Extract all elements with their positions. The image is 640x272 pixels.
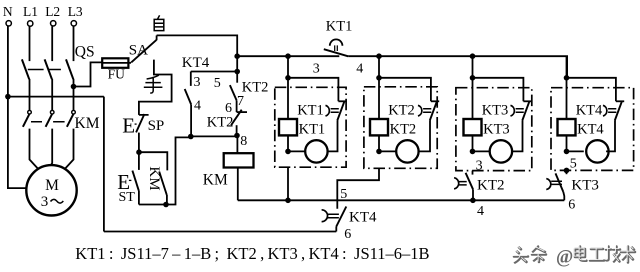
wire N vertical — [8, 26, 27, 188]
coil KT4 body — [558, 119, 576, 135]
wire node 8 to KM coil — [236, 136, 238, 154]
wire L2 middle — [51, 79, 53, 111]
contact KT4 off-delay arc — [603, 105, 607, 116]
coil KT2 body — [370, 119, 388, 135]
wire top bus left segment node 3 — [237, 55, 339, 57]
junction rail block 3 — [470, 75, 476, 81]
svg-text:3: 3 — [41, 194, 49, 210]
svg-text:KT3: KT3 — [482, 103, 509, 119]
junction bus to SA — [234, 53, 240, 59]
contactor KM linkage dashes — [31, 121, 65, 123]
contact KT4 off-delay lines — [608, 109, 616, 113]
wire rail to contact block 2 — [379, 78, 431, 102]
junction L3 fuse tap — [71, 84, 77, 90]
wire KT2 bottom to bus — [472, 189, 474, 200]
wire block2 return node 5 — [337, 168, 379, 209]
svg-text:KT1: KT1 — [299, 122, 326, 138]
enclosure block KT4 dash-dot border — [551, 88, 634, 171]
wire block1 return to bottom bus — [287, 167, 289, 200]
button ST top lead — [138, 152, 140, 170]
wire to KM aux contact — [139, 152, 167, 170]
button SP top lead and NC bar — [139, 106, 149, 115]
svg-text:3: 3 — [194, 75, 201, 90]
wire bus drop block 1 — [287, 56, 289, 78]
wire lamp to contact KT1 — [328, 121, 338, 152]
wire bus drop block 4 — [566, 56, 568, 78]
svg-text:7: 7 — [237, 94, 244, 109]
contact KT1 on-delay symbol — [330, 39, 343, 45]
junction lamp feed KT1 — [285, 149, 291, 155]
contact KT1 blade — [324, 49, 348, 56]
relay KT2 coil lead upper — [378, 78, 380, 119]
svg-text:KM: KM — [203, 172, 228, 189]
svg-text:KT2: KT2 — [477, 178, 505, 194]
svg-text:8: 8 — [240, 134, 247, 149]
contact KT2 mid upper blade — [230, 85, 237, 100]
junction N / control-neutral — [5, 94, 11, 100]
svg-text:4: 4 — [356, 62, 363, 77]
svg-text:5: 5 — [214, 76, 221, 91]
switch QS pole 3 blade — [66, 59, 73, 79]
wire rail to contact block 3 — [473, 78, 524, 102]
junction rail block 2 — [376, 75, 382, 81]
contact KT4 bottom off-delay arc — [322, 210, 328, 222]
terminal L2 — [51, 21, 56, 26]
svg-text:6: 6 — [344, 227, 351, 242]
enclosure block KT2 dash-dot border — [364, 87, 437, 169]
junction node below KT4 contact — [188, 134, 194, 140]
junction block1 return — [285, 198, 291, 204]
wire bus drop block 3 — [472, 56, 474, 78]
contactor KM pole 1 blade — [23, 114, 29, 127]
svg-text:KT4: KT4 — [182, 55, 210, 71]
svg-text:KM: KM — [146, 166, 162, 190]
svg-text:3: 3 — [313, 62, 320, 77]
wire node 6 horizontal — [104, 231, 336, 233]
svg-text:KT2: KT2 — [388, 103, 415, 119]
svg-text:KT1 : JS11–7 – 1–B ; KT2 , K: KT1 : JS11–7 – 1–B ; KT2 , KT3 , KT4 : J… — [75, 244, 429, 263]
junction lamp feed KT2 — [376, 149, 382, 155]
wire KT4 mid lower — [190, 104, 192, 136]
junction KT2 bottom bus — [470, 198, 476, 204]
wire to node 8 — [236, 125, 238, 135]
svg-text:KT4: KT4 — [576, 103, 603, 119]
wire control-neutral vertical — [103, 97, 105, 232]
wire KM aux lower — [166, 195, 168, 205]
lamp HL3 — [490, 140, 512, 162]
wire node8 junction horizontal — [191, 135, 237, 137]
svg-text:KT3: KT3 — [483, 122, 510, 138]
contact KT2 bottom off-delay arc — [454, 178, 459, 189]
terminal L1 — [28, 21, 33, 26]
svg-text:6: 6 — [568, 198, 575, 213]
contact zi (auto) stub — [156, 35, 158, 40]
wire ST lower — [138, 190, 140, 204]
junction KM aux bottom — [163, 202, 169, 208]
coil KT3 body — [464, 119, 482, 135]
watermark toutiao dianGongJiShu — [513, 246, 635, 268]
contact KT3 off-delay arc — [511, 105, 515, 116]
svg-text:KT2: KT2 — [207, 115, 234, 131]
button SP link — [135, 123, 137, 125]
junction lamp feed KT4 — [564, 149, 570, 155]
wire lamp to contact KT2 — [419, 121, 430, 152]
contact KT4 NC blade — [615, 101, 622, 121]
wire KT4 bottom to node 6 — [335, 227, 337, 232]
svg-text:M: M — [45, 177, 59, 194]
svg-text:QS: QS — [75, 44, 95, 61]
wire L3 upper — [73, 26, 75, 61]
wire between mid KT2 contacts — [236, 100, 238, 112]
wire L2 upper — [51, 26, 53, 61]
contactor KM pole 3 blade — [67, 114, 73, 127]
svg-text:KT1: KT1 — [297, 103, 324, 119]
switch QS pole 2 blade — [45, 59, 52, 79]
wire SP to junction — [138, 133, 140, 153]
wire lamp feed KT1 — [288, 150, 305, 152]
relay KT4 coil lead upper — [566, 78, 568, 119]
svg-text:L2: L2 — [45, 4, 60, 19]
svg-text:4: 4 — [477, 204, 484, 219]
wire L1 upper — [29, 26, 31, 61]
contact KT2 off-delay arc — [418, 105, 422, 116]
contact KT1 off-delay arc — [326, 105, 330, 116]
enclosure block KT3 dash-dot border — [456, 88, 532, 171]
button ST link — [129, 179, 132, 181]
svg-text:KT1: KT1 — [326, 19, 353, 35]
relay KT2 coil lead lower — [378, 135, 380, 151]
svg-text:5: 5 — [570, 157, 577, 172]
wire bus drop to node3 wire — [236, 56, 238, 71]
junction bus feed block 1 — [285, 53, 291, 59]
contact KT1 off-delay lines — [331, 109, 339, 113]
contact KT1 NC bar — [338, 100, 346, 102]
junction rail block 1 — [285, 75, 291, 81]
svg-text:FU: FU — [108, 67, 126, 82]
wire lamp feed KT3 — [473, 150, 490, 152]
wire L1 middle — [29, 79, 31, 111]
relay KT3 coil lead lower — [472, 135, 474, 151]
switch SA blade — [131, 40, 156, 63]
lamp HL2 — [396, 140, 418, 162]
terminal L3 — [71, 21, 76, 26]
enclosure block KT1 dash-dot border — [275, 87, 346, 167]
svg-text:SP: SP — [148, 118, 165, 134]
wire block4 return node 5 — [566, 170, 568, 174]
fuse FU body — [102, 58, 128, 68]
contact KT1 NC blade — [337, 101, 344, 121]
svg-text:E: E — [122, 113, 135, 137]
relay KT4 coil lead lower — [566, 135, 568, 151]
svg-text:KT4: KT4 — [577, 122, 604, 138]
wire L1 lower to motor — [30, 129, 39, 170]
wire lamp to contact KT3 — [512, 121, 522, 152]
wire L3 to fuse FU — [74, 62, 103, 86]
junction SP-ST-KM — [136, 149, 142, 155]
switch QS linkage dashes — [28, 69, 61, 71]
contact KM aux blade — [159, 172, 167, 196]
lamp HL1 — [305, 140, 327, 162]
wire latch bottom — [139, 137, 191, 204]
contact KT3 NC bar — [523, 100, 531, 102]
wire L3 middle — [73, 79, 75, 111]
junction node3 wire — [234, 69, 240, 75]
wire L2 lower to motor — [51, 129, 53, 166]
coil KT1 body — [279, 119, 297, 135]
contact KT4 bottom off-delay lines — [327, 214, 339, 218]
svg-text:KT3: KT3 — [571, 178, 599, 194]
contact KT2 bottom blade — [466, 173, 473, 190]
svg-text:L3: L3 — [68, 4, 83, 19]
wire bus drop block 2 — [378, 56, 380, 78]
wire node 3 horizontal — [191, 71, 237, 73]
svg-text:N: N — [3, 4, 13, 19]
wire rail to contact block 4 — [567, 78, 616, 102]
svg-text:ST: ST — [119, 190, 136, 205]
relay KT1 coil lead upper — [287, 78, 289, 119]
wire block3 return node 3 — [472, 171, 474, 175]
junction bus feed block 2 — [376, 53, 382, 59]
lamp HL4 — [586, 140, 608, 162]
contact KT2 bottom off-delay lines — [459, 182, 467, 185]
fuse FU through-wire — [102, 62, 131, 64]
svg-text:5: 5 — [340, 187, 347, 202]
junction lamp feed KT3 — [470, 149, 476, 155]
contact KT2 mid upper lead — [236, 72, 238, 83]
wire rail to contact block 1 — [288, 78, 338, 102]
svg-text:KM: KM — [75, 115, 100, 132]
coil KM body — [224, 153, 254, 167]
wire lamp to contact KT4 — [606, 121, 615, 152]
contact KT3 bottom off-delay lines — [551, 181, 562, 184]
switch QS pole 1 blade — [22, 59, 29, 79]
contact KT2 NC bar — [431, 100, 439, 102]
wire lamp feed KT4 — [567, 150, 584, 152]
button SP blade — [136, 114, 144, 132]
glyph shou (manual) — [144, 75, 163, 93]
contact KT2 off-delay lines — [423, 109, 431, 113]
svg-text:KT2: KT2 — [242, 80, 269, 96]
glyph zi (auto) — [154, 15, 164, 30]
wire KT3 bottom to bus end — [563, 192, 564, 200]
motor M1 circle — [26, 165, 76, 215]
relay KT3 coil lead upper — [472, 78, 474, 119]
contactor KM pole 1 terminal — [28, 110, 32, 114]
wire KM coil to bottom bus — [237, 168, 239, 201]
wire bottom bus node 4 — [238, 199, 565, 201]
wire neutral bus to control circuit — [8, 96, 104, 98]
contactor KM pole 2 blade — [46, 114, 52, 127]
wire L3 lower to motor — [64, 129, 73, 170]
contact KT4 NC bar — [616, 100, 624, 102]
relay KT1 coil lead lower — [287, 135, 289, 151]
svg-text:@: @ — [556, 248, 573, 268]
contact KT2 mid lower bar — [237, 111, 247, 113]
svg-text:4: 4 — [194, 99, 201, 114]
junction bus feed block 3 — [470, 53, 476, 59]
junction rail block 4 — [564, 75, 570, 81]
svg-text:KT2: KT2 — [390, 122, 417, 138]
wire top bus right segment node 4 — [348, 56, 567, 78]
contact KT2 mid lower blade — [231, 110, 242, 126]
contact KT4 mid top lead — [190, 72, 192, 86]
contact KT3 bottom off-delay arc — [546, 179, 551, 190]
contact KT3 bottom blade — [556, 173, 564, 192]
contact KT4 mid blade — [185, 89, 191, 104]
contactor KM pole 3 terminal — [72, 110, 76, 114]
svg-text:3: 3 — [476, 159, 483, 174]
terminal N — [6, 21, 11, 26]
junction node 8 — [234, 133, 240, 139]
junction block4 border — [564, 168, 570, 174]
contact KT3 NC blade — [522, 101, 529, 121]
contact KT4 bottom blade — [336, 207, 346, 227]
contactor KM pole 2 terminal — [50, 110, 54, 114]
contact KT3 off-delay lines — [516, 109, 524, 113]
button ST blade — [132, 171, 138, 191]
wire zi to bus — [157, 35, 238, 56]
wire lamp feed KT2 — [379, 150, 396, 152]
svg-text:KT4: KT4 — [349, 210, 377, 226]
contact KT2 NC blade — [430, 101, 437, 121]
svg-text:SA: SA — [129, 43, 148, 59]
contact shou (manual) stub and routing wire — [139, 60, 172, 106]
svg-text:L1: L1 — [23, 4, 38, 19]
